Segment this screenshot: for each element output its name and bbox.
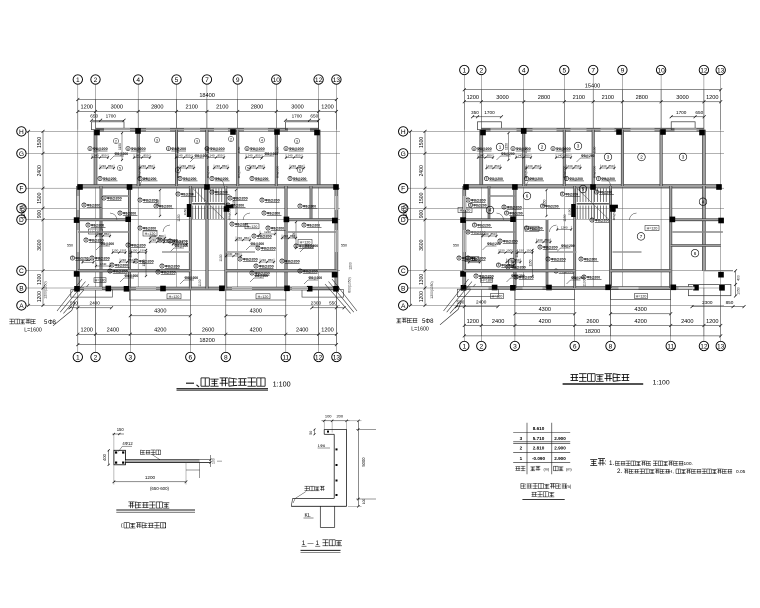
svg-text:2800: 2800: [538, 95, 550, 101]
svg-text:1200: 1200: [321, 105, 333, 111]
svg-text:1: 1: [499, 145, 502, 150]
svg-text:3: 3: [296, 139, 298, 143]
svg-text:850: 850: [158, 238, 163, 242]
svg-text:8: 8: [458, 256, 460, 260]
svg-text:15400: 15400: [585, 83, 601, 89]
svg-text:A: A: [19, 303, 24, 310]
svg-text:1200: 1200: [706, 95, 718, 101]
svg-text:Φ8@200: Φ8@200: [303, 204, 316, 208]
svg-text:8: 8: [299, 269, 301, 273]
svg-text:7: 7: [640, 234, 643, 239]
svg-text:8: 8: [512, 147, 514, 151]
svg-text:3: 3: [128, 354, 132, 361]
svg-text:850: 850: [487, 154, 492, 158]
svg-text:8: 8: [72, 256, 74, 260]
svg-text:1150: 1150: [568, 208, 572, 215]
svg-text:8: 8: [231, 222, 233, 226]
svg-text:1.: 1.: [609, 460, 614, 467]
svg-text:230: 230: [181, 164, 186, 168]
svg-text:350: 350: [471, 110, 479, 115]
svg-text:150: 150: [117, 427, 125, 432]
svg-text:2600: 2600: [202, 328, 214, 334]
svg-text:1: 1: [76, 77, 80, 84]
svg-text:4200: 4200: [539, 319, 551, 325]
svg-text:230: 230: [567, 164, 572, 168]
svg-text:H=180: H=180: [481, 279, 492, 283]
svg-text:Φ8@200: Φ8@200: [103, 177, 117, 181]
svg-text:8: 8: [211, 190, 213, 194]
svg-text:8: 8: [526, 226, 528, 230]
svg-text:900: 900: [419, 210, 425, 219]
svg-text:550: 550: [67, 244, 73, 248]
svg-text:1100: 1100: [198, 279, 202, 286]
svg-text:850: 850: [222, 164, 227, 168]
svg-text:1200: 1200: [706, 319, 718, 325]
svg-text:8: 8: [139, 198, 141, 202]
svg-text:8: 8: [303, 223, 305, 227]
svg-text:10: 10: [657, 67, 665, 74]
svg-text:1700: 1700: [484, 110, 495, 115]
svg-text:8: 8: [609, 343, 613, 350]
svg-text:150: 150: [500, 249, 505, 253]
svg-text:1300: 1300: [37, 274, 43, 285]
svg-text:Φ8@200: Φ8@200: [593, 165, 597, 178]
svg-text:2800: 2800: [151, 105, 163, 111]
svg-text:8: 8: [87, 223, 89, 227]
svg-text:230: 230: [487, 164, 492, 168]
svg-text:230: 230: [291, 164, 296, 168]
svg-text:230: 230: [101, 164, 106, 168]
svg-text:850: 850: [268, 258, 273, 262]
svg-text:1Φ6: 1Φ6: [318, 443, 326, 448]
svg-text:2800: 2800: [251, 105, 263, 111]
svg-text:850: 850: [255, 154, 260, 158]
svg-text:850: 850: [544, 238, 549, 242]
svg-text:8: 8: [157, 270, 159, 274]
svg-text:4300: 4300: [154, 309, 166, 315]
svg-text:12: 12: [315, 354, 323, 361]
svg-text:8: 8: [263, 211, 265, 215]
svg-text:6: 6: [694, 251, 697, 256]
svg-text:Φ8@200: Φ8@200: [285, 259, 300, 263]
svg-text:8: 8: [526, 177, 528, 181]
svg-text:4Φ12: 4Φ12: [122, 441, 133, 446]
svg-text:Φ8@200: Φ8@200: [551, 257, 566, 261]
svg-text:230: 230: [507, 258, 512, 262]
svg-text:850: 850: [148, 164, 153, 168]
svg-text:Φ8@200: Φ8@200: [501, 152, 515, 156]
svg-text:1150: 1150: [504, 143, 508, 150]
svg-text:1150: 1150: [593, 146, 597, 153]
svg-text:2: 2: [479, 343, 483, 350]
svg-text:850: 850: [295, 154, 300, 158]
svg-text:18400: 18400: [199, 93, 215, 99]
svg-text:1200(1050): 1200(1050): [430, 281, 434, 298]
svg-text:1200: 1200: [80, 328, 92, 334]
svg-text:850: 850: [244, 236, 249, 240]
svg-text:Φ8@200: Φ8@200: [165, 264, 180, 268]
svg-text:5Φ8: 5Φ8: [422, 319, 434, 325]
svg-text:2400: 2400: [37, 165, 43, 176]
svg-text:Φ8@200: Φ8@200: [210, 147, 225, 151]
svg-text:1150: 1150: [515, 250, 519, 257]
svg-text:8: 8: [229, 196, 231, 200]
svg-text:4300: 4300: [634, 307, 646, 313]
svg-text:Φ8@200: Φ8@200: [235, 222, 248, 226]
svg-text:8: 8: [475, 274, 477, 278]
svg-text:Φ8@200: Φ8@200: [181, 192, 194, 196]
svg-text:230: 230: [537, 238, 542, 242]
svg-text::: :: [605, 460, 607, 467]
svg-text:Φ8@200: Φ8@200: [587, 275, 600, 279]
svg-text:3: 3: [520, 436, 523, 441]
svg-text:400: 400: [737, 275, 741, 281]
svg-text:Φ8@200: Φ8@200: [250, 147, 265, 151]
svg-text:4200: 4200: [250, 328, 262, 334]
svg-text:Φ8@200: Φ8@200: [271, 226, 284, 230]
svg-text:8: 8: [83, 203, 85, 207]
svg-text:1240: 1240: [100, 262, 107, 266]
svg-text:2.900: 2.900: [554, 446, 566, 451]
svg-text:150: 150: [519, 249, 524, 253]
svg-text:F: F: [19, 186, 23, 193]
svg-text:150: 150: [132, 249, 137, 253]
svg-text:850: 850: [298, 164, 303, 168]
svg-text:8: 8: [255, 264, 257, 268]
svg-text:4: 4: [261, 138, 263, 142]
svg-text:8: 8: [239, 257, 241, 261]
svg-text:H=120: H=120: [258, 295, 269, 299]
svg-text:Φ8@200: Φ8@200: [276, 165, 280, 178]
svg-text:230: 230: [261, 258, 266, 262]
svg-text:8: 8: [139, 177, 141, 181]
svg-text:Φ8@200: Φ8@200: [183, 177, 197, 181]
svg-text:H=120: H=120: [169, 295, 180, 299]
svg-text:Φ8@200: Φ8@200: [115, 263, 128, 267]
svg-text:12: 12: [700, 343, 708, 350]
svg-text:8: 8: [473, 147, 475, 151]
svg-text:Φ8@200: Φ8@200: [255, 177, 269, 181]
svg-text:Φ8@200: Φ8@200: [115, 152, 129, 156]
svg-text:8: 8: [261, 198, 263, 202]
svg-text:3: 3: [156, 138, 158, 142]
svg-text:1130: 1130: [219, 254, 223, 261]
svg-text:H: H: [19, 129, 24, 136]
svg-text:850: 850: [574, 164, 579, 168]
svg-text:Φ8@200: Φ8@200: [237, 165, 241, 178]
svg-text:4: 4: [489, 208, 492, 213]
svg-text:850: 850: [608, 164, 613, 168]
svg-text:(m): (m): [544, 467, 550, 471]
svg-text:400: 400: [102, 453, 107, 461]
svg-text:100: 100: [362, 499, 366, 505]
svg-text:H=180: H=180: [95, 279, 106, 283]
svg-text:8: 8: [552, 147, 554, 151]
svg-text:2: 2: [94, 354, 98, 361]
svg-text:8: 8: [289, 177, 291, 181]
svg-text:850: 850: [188, 164, 193, 168]
svg-text:0.05: 0.05: [736, 469, 746, 475]
svg-text:1:100: 1:100: [653, 380, 670, 387]
svg-text:8: 8: [119, 211, 121, 215]
svg-text:Φ8@200: Φ8@200: [101, 242, 115, 246]
svg-text:,: ,: [673, 469, 674, 474]
svg-text:2400: 2400: [492, 319, 504, 325]
svg-text:230: 230: [237, 236, 242, 240]
svg-text:850: 850: [185, 154, 190, 158]
svg-text:650: 650: [695, 110, 703, 115]
svg-text:150: 150: [113, 249, 118, 253]
svg-text:850: 850: [494, 164, 499, 168]
svg-text:Φ8@200: Φ8@200: [473, 203, 486, 207]
svg-text:(m): (m): [565, 484, 572, 489]
svg-text:Φ8@200: Φ8@200: [206, 165, 210, 178]
svg-text:5000: 5000: [361, 457, 366, 467]
svg-text:150: 150: [526, 249, 531, 253]
svg-text:8: 8: [177, 192, 179, 196]
svg-text:8: 8: [211, 177, 213, 181]
svg-text:8: 8: [253, 234, 255, 238]
svg-text:850: 850: [290, 234, 295, 238]
svg-text:2100: 2100: [216, 105, 228, 111]
svg-text:650: 650: [90, 114, 98, 119]
svg-text:Φ8@200: Φ8@200: [125, 274, 139, 278]
svg-text:1150: 1150: [129, 250, 133, 257]
svg-text:Φ8@200: Φ8@200: [471, 198, 486, 202]
svg-text:3: 3: [607, 155, 610, 160]
svg-text:L=1600: L=1600: [24, 328, 42, 334]
svg-text:2: 2: [479, 67, 483, 74]
svg-text:850: 850: [258, 164, 263, 168]
svg-text:150: 150: [506, 249, 511, 253]
svg-text:8: 8: [506, 211, 508, 215]
svg-text:8: 8: [467, 198, 469, 202]
svg-text:10: 10: [273, 77, 281, 84]
svg-text:2400: 2400: [107, 328, 119, 334]
svg-text:1: 1: [462, 67, 466, 74]
svg-text:H: H: [401, 129, 406, 136]
svg-text:1150: 1150: [138, 146, 142, 153]
svg-text:Φ8@200: Φ8@200: [501, 263, 514, 267]
svg-text:850: 850: [143, 154, 148, 158]
svg-text:F: F: [401, 186, 405, 193]
svg-text:230: 230: [121, 258, 126, 262]
svg-text:1150: 1150: [528, 259, 532, 266]
svg-text:Φ8@200: Φ8@200: [571, 276, 585, 280]
svg-text:1150: 1150: [118, 143, 122, 150]
svg-text:3: 3: [682, 155, 685, 160]
svg-text:11: 11: [282, 354, 289, 361]
svg-text:850: 850: [726, 300, 734, 305]
svg-text:Φ8@200: Φ8@200: [175, 244, 189, 248]
svg-text:8: 8: [591, 218, 593, 222]
svg-text:650: 650: [310, 114, 318, 119]
svg-text:Φ8@200: Φ8@200: [215, 190, 228, 194]
svg-text:Φ8@200: Φ8@200: [293, 177, 307, 181]
svg-text:180: 180: [472, 258, 477, 262]
svg-text:2.: 2.: [617, 468, 622, 475]
svg-text:8: 8: [89, 147, 91, 151]
svg-text:Φ8@200: Φ8@200: [511, 274, 525, 278]
svg-text:230: 230: [151, 238, 156, 242]
svg-text:Φ8@200: Φ8@200: [477, 223, 490, 227]
svg-text:(650·600): (650·600): [150, 486, 170, 491]
svg-text:2: 2: [230, 137, 232, 141]
svg-text:2100: 2100: [573, 95, 585, 101]
svg-text:8: 8: [85, 238, 87, 242]
svg-text:Φ8@200: Φ8@200: [143, 226, 156, 230]
svg-text:4300: 4300: [250, 309, 262, 315]
svg-text:(: (: [121, 523, 123, 529]
svg-text:140: 140: [287, 154, 292, 158]
svg-text:2600: 2600: [586, 319, 598, 325]
svg-text:1150: 1150: [183, 208, 187, 215]
svg-text:L=1600: L=1600: [411, 327, 429, 333]
svg-text:Φ8@200: Φ8@200: [487, 242, 501, 246]
svg-text:140: 140: [209, 154, 214, 158]
svg-text:3: 3: [577, 144, 580, 149]
svg-text:Φ8@200: Φ8@200: [565, 192, 578, 196]
svg-text:A: A: [401, 303, 406, 310]
svg-text:8: 8: [486, 177, 488, 181]
svg-text:Φ8@200: Φ8@200: [113, 269, 128, 273]
svg-text:5: 5: [562, 67, 566, 74]
svg-text:1700: 1700: [292, 114, 303, 119]
svg-text:Φ8@200: Φ8@200: [251, 242, 265, 246]
svg-text:5: 5: [119, 166, 121, 170]
svg-text:1: 1: [462, 343, 466, 350]
svg-text:6: 6: [573, 343, 577, 350]
svg-text:1200: 1200: [467, 95, 479, 101]
svg-text:8: 8: [53, 320, 57, 326]
svg-text:1200: 1200: [80, 105, 92, 111]
svg-text:4300: 4300: [539, 307, 551, 313]
svg-text:12400: 12400: [21, 205, 27, 219]
svg-text:1500: 1500: [419, 192, 425, 203]
svg-text:18200: 18200: [199, 338, 215, 344]
svg-text:12: 12: [315, 77, 323, 84]
svg-text:2.900: 2.900: [554, 436, 566, 441]
svg-text:B: B: [401, 285, 406, 292]
svg-text:1200: 1200: [145, 475, 156, 480]
svg-text:3000: 3000: [111, 105, 123, 111]
svg-text:140: 140: [93, 154, 98, 158]
svg-text:3600: 3600: [37, 239, 43, 250]
svg-text:8: 8: [598, 177, 600, 181]
svg-text:850: 850: [534, 164, 539, 168]
svg-text:1100: 1100: [582, 279, 586, 286]
svg-text:G: G: [19, 151, 24, 158]
svg-text:550: 550: [341, 244, 347, 248]
svg-text:4200: 4200: [154, 328, 166, 334]
svg-text:Φ8@200: Φ8@200: [185, 276, 199, 280]
svg-text:B: B: [19, 285, 24, 292]
svg-text:H=120: H=120: [647, 227, 658, 231]
svg-text:8: 8: [91, 256, 93, 260]
svg-text:8: 8: [246, 147, 248, 151]
svg-text:1150: 1150: [524, 146, 528, 153]
svg-text:2300: 2300: [311, 301, 322, 306]
svg-text:8: 8: [547, 257, 549, 261]
svg-text:13: 13: [717, 67, 725, 74]
svg-text:8: 8: [562, 192, 564, 196]
svg-text:H=120: H=120: [247, 225, 258, 229]
svg-text:Φ8@200: Φ8@200: [307, 223, 320, 227]
svg-text:(m): (m): [566, 467, 572, 471]
svg-text:1150: 1150: [206, 146, 210, 153]
svg-text:850: 850: [128, 258, 133, 262]
svg-text:Φ8@200: Φ8@200: [163, 238, 178, 242]
svg-text:8: 8: [161, 264, 163, 268]
svg-text:—: —: [308, 541, 314, 547]
svg-text:850: 850: [101, 154, 106, 158]
svg-text:Φ8@200: Φ8@200: [561, 244, 575, 248]
svg-text:C: C: [19, 268, 24, 275]
svg-text:1: 1: [520, 456, 523, 461]
svg-text:Φ8@200: Φ8@200: [303, 269, 318, 273]
svg-text:8: 8: [299, 204, 301, 208]
svg-text:5: 5: [582, 187, 585, 192]
svg-text:100.: 100.: [684, 461, 693, 467]
svg-text:7: 7: [205, 77, 209, 84]
svg-text:2100: 2100: [602, 95, 614, 101]
svg-text:1: 1: [76, 354, 80, 361]
svg-text:6: 6: [299, 168, 301, 172]
svg-text:230: 230: [141, 164, 146, 168]
svg-text:Φ8@200: Φ8@200: [599, 190, 612, 194]
svg-text:18200: 18200: [585, 329, 601, 335]
svg-text:8: 8: [257, 246, 259, 250]
svg-text:8: 8: [539, 245, 541, 249]
svg-text:1500: 1500: [37, 192, 43, 203]
svg-text:6: 6: [188, 354, 192, 361]
svg-text:2: 2: [520, 446, 523, 451]
svg-text:600(1050): 600(1050): [348, 277, 352, 292]
svg-text:8: 8: [596, 190, 598, 194]
svg-text:2400: 2400: [681, 319, 693, 325]
svg-text:4: 4: [702, 199, 705, 204]
svg-text:2800: 2800: [636, 95, 648, 101]
svg-text:550: 550: [329, 301, 337, 306]
svg-text:1150: 1150: [156, 199, 160, 206]
svg-text:8: 8: [127, 147, 129, 151]
svg-text:1200(1050): 1200(1050): [44, 281, 48, 298]
svg-text:1200: 1200: [419, 291, 425, 302]
svg-text:100: 100: [212, 458, 216, 464]
svg-text:9: 9: [236, 77, 240, 84]
svg-text:Φ8@200: Φ8@200: [309, 276, 323, 280]
svg-text:140: 140: [247, 154, 252, 158]
svg-text:230: 230: [283, 234, 288, 238]
svg-text:Φ8@200: Φ8@200: [265, 198, 280, 202]
svg-text:1150: 1150: [563, 214, 567, 221]
svg-text:2: 2: [115, 139, 117, 143]
svg-text:1050: 1050: [737, 287, 741, 295]
svg-text:Φ8@200: Φ8@200: [489, 177, 503, 181]
svg-text:200: 200: [336, 414, 343, 419]
svg-text:Φ8@200: Φ8@200: [289, 147, 304, 151]
svg-text:Φ8@200: Φ8@200: [595, 218, 610, 222]
svg-text:11: 11: [667, 343, 674, 350]
svg-text:900: 900: [37, 210, 43, 219]
svg-text:Φ8@200: Φ8@200: [509, 211, 522, 215]
svg-text:230: 230: [527, 164, 532, 168]
svg-text:3000: 3000: [496, 95, 508, 101]
svg-text:230: 230: [251, 164, 256, 168]
svg-text:850: 850: [514, 258, 519, 262]
svg-text:8: 8: [139, 226, 141, 230]
svg-text:Φ8@200: Φ8@200: [569, 177, 583, 181]
